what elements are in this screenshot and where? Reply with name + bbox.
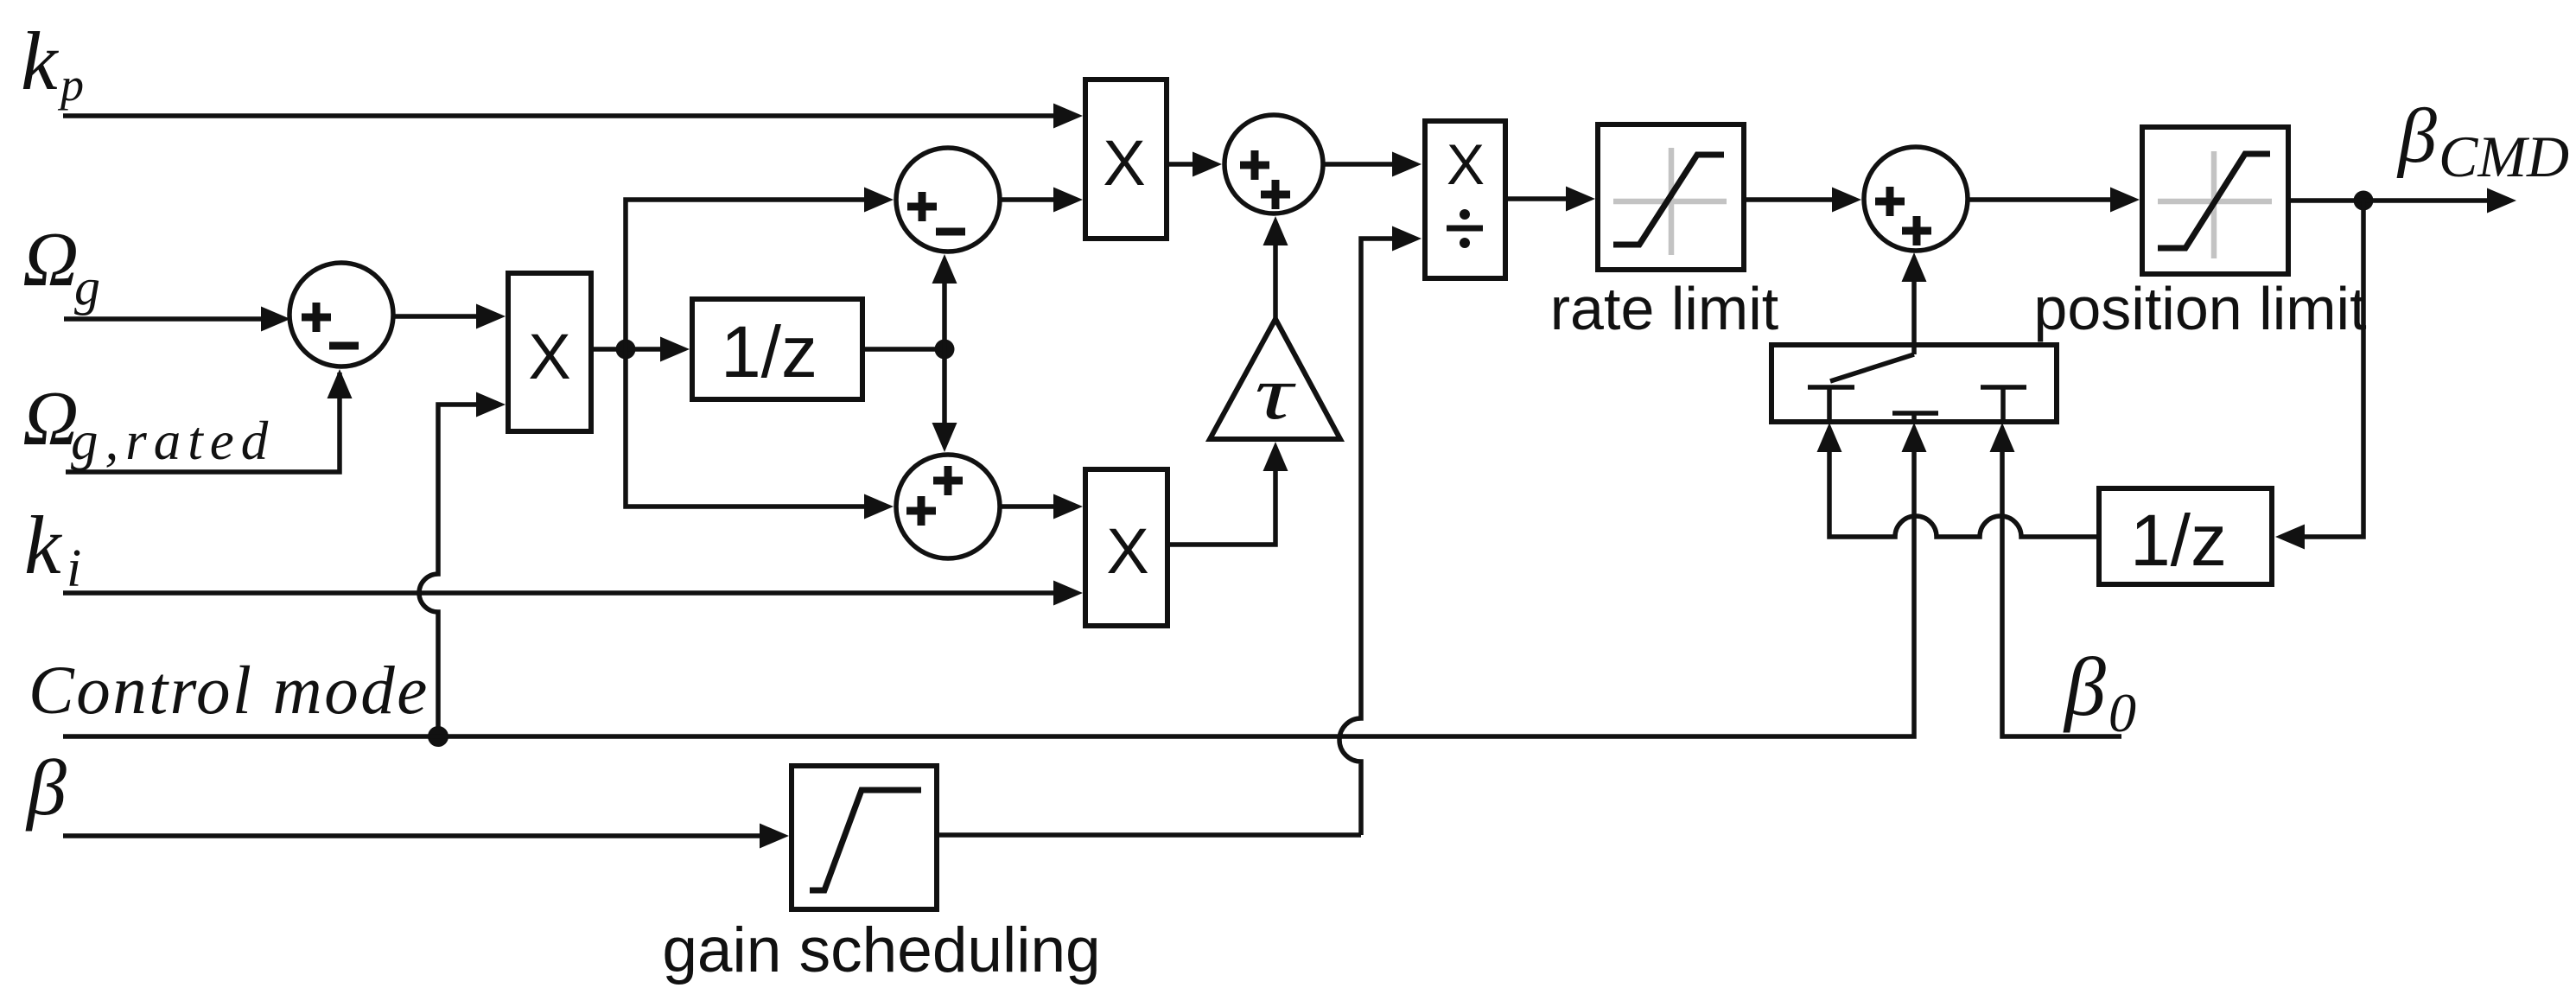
wire ki input line to multiplier M3	[63, 581, 1083, 606]
svg-text:X: X	[528, 321, 570, 392]
wire node to 1/z delay Z1	[626, 337, 690, 362]
multiplier M2	[1085, 80, 1167, 239]
delay block Z1 (1/z)	[692, 299, 862, 399]
label beta_CMD	[2396, 93, 2569, 189]
summing junction S2 (plus minus)	[896, 148, 1000, 252]
wire node down to S3 top input	[932, 349, 957, 452]
wire kp input line	[63, 104, 1083, 129]
wire Omega_g,rated to summing junction S1	[66, 369, 353, 472]
label rate limit	[1550, 275, 1778, 342]
wire D1 output to rate limit block	[1505, 187, 1595, 212]
label kp	[21, 15, 84, 111]
multiplier M1	[508, 273, 591, 431]
node Z1 output junction	[935, 340, 955, 360]
rate limit block L1	[1598, 124, 1744, 270]
node output junction	[2354, 191, 2374, 211]
svg-text:β: β	[2396, 93, 2437, 179]
delay block Z2 (1/z)	[2099, 488, 2272, 584]
wire S1 output to multiplier M1	[393, 304, 506, 329]
wire L2 output to node	[2288, 198, 2363, 203]
summing junction S4 (plus plus)	[1224, 115, 1323, 214]
wire Z2 output left to switch left input (hops over two risers)	[1817, 423, 2100, 537]
wire beta input line to gain scheduling block	[63, 824, 789, 849]
svg-text:i: i	[67, 539, 81, 598]
wire node to beta_CMD output	[2363, 188, 2516, 214]
summing junction S1	[289, 263, 393, 366]
label beta_0	[2063, 641, 2136, 743]
position limit block L2	[2142, 127, 2288, 274]
label Omega_g,rated	[22, 376, 275, 471]
wire M3 output up to gain tau	[1167, 442, 1288, 545]
wire L1 output to summing junction S5	[1744, 188, 1861, 213]
wire Z1 output to node	[862, 347, 945, 352]
summing junction S5 (plus plus)	[1864, 147, 1968, 251]
svg-text:gain scheduling: gain scheduling	[662, 915, 1100, 985]
svg-text:Control mode: Control mode	[29, 653, 429, 729]
wire node up to S2 bottom input	[932, 254, 957, 349]
wire S4 output to multiply-divide block D1	[1323, 152, 1422, 177]
wire G1 output to riser	[937, 832, 1361, 838]
svg-text:X: X	[1103, 127, 1145, 199]
svg-text:position limit: position limit	[2033, 275, 2366, 342]
summing junction S3 (plus plus)	[896, 455, 1000, 558]
wire M1 output to node	[591, 347, 626, 352]
wire M2 output to summing junction S4	[1167, 152, 1222, 177]
gain scheduling block G1	[792, 766, 937, 909]
svg-text:β: β	[2063, 641, 2106, 733]
svg-text:k: k	[24, 499, 63, 591]
wire node down to summing junction S3 input	[626, 349, 894, 519]
svg-text:X: X	[1447, 132, 1485, 196]
wire beta_0 line to switch right input	[1990, 423, 2122, 736]
svg-text:β: β	[25, 743, 67, 832]
svg-text:X: X	[1106, 515, 1148, 587]
svg-text:1/z: 1/z	[2130, 500, 2227, 581]
svg-text:CMD: CMD	[2439, 124, 2569, 189]
svg-text:g: g	[74, 258, 100, 315]
svg-text:rate limit: rate limit	[1550, 275, 1778, 342]
label beta	[25, 743, 67, 832]
label position limit	[2033, 275, 2366, 342]
svg-text:1/z: 1/z	[721, 311, 817, 392]
wire S3 output to multiplier M3	[1000, 494, 1083, 519]
wire switch output up to S5 bottom input	[1902, 252, 1927, 354]
wire node up to summing junction S2 input	[626, 188, 894, 350]
wire control mode line to switch middle input	[63, 423, 1927, 736]
label Omega_g	[22, 217, 100, 315]
wire S2 output to multiplier M2	[1000, 188, 1083, 213]
multiply-divide block D1	[1425, 121, 1505, 278]
svg-text:p: p	[57, 59, 84, 111]
wire feedback from output node down to delay Z2	[2275, 201, 2363, 550]
switch block SW1	[1771, 345, 2057, 422]
label Control mode	[29, 653, 429, 729]
svg-text:τ: τ	[1255, 352, 1297, 436]
wire S5 output to position limit block	[1968, 188, 2140, 213]
wire Omega_g input line	[64, 307, 290, 332]
multiplier M3	[1085, 469, 1167, 626]
label gain scheduling	[662, 915, 1100, 985]
label ki	[24, 499, 81, 598]
wire gain scheduling output riser to D1 divide input (hop over control mode line)	[1339, 226, 1422, 836]
svg-text:g,rated: g,rated	[71, 411, 275, 471]
gain block tau (triangle)	[1210, 319, 1340, 439]
wire tau output up to S4 bottom input	[1263, 216, 1288, 319]
node control mode junction	[428, 726, 448, 747]
svg-text:Ω: Ω	[22, 217, 79, 303]
svg-text:k: k	[21, 15, 60, 107]
node M1 output junction	[616, 340, 636, 360]
wire control mode to multiplier M1 lower input (with hop over ki line)	[419, 392, 506, 737]
